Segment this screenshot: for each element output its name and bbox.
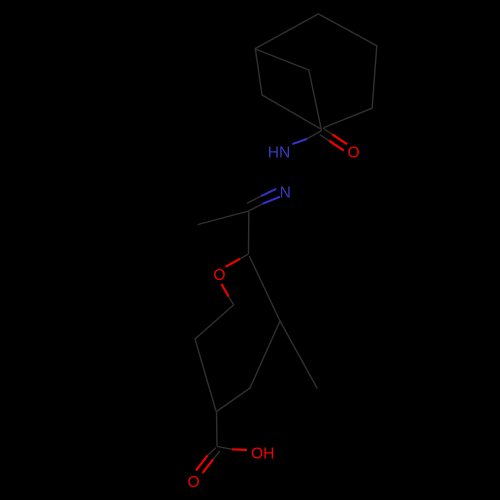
acid C=O red half 2 [203,460,214,474]
C=O double bond red half 1 [332,134,347,144]
imine C to furan C2 bond [248,213,250,253]
C=N inner line carbon half [248,196,262,203]
furan O-C2 bond red half [226,259,241,267]
C=O double bond carbon stub 2 [320,135,329,141]
methyl bond on imine carbon [198,211,249,225]
acid C=O carbon stub 1 [208,448,216,456]
bond furan C2 down-right [250,257,281,322]
furan O-C5 bond red half [222,284,229,297]
furan O-C5 bond carbon half [229,297,234,305]
svg-text:O: O [188,474,200,491]
cage bond C2-C3 [255,49,262,96]
bond furan C5 down-left [195,305,234,339]
C=O double bond carbon stub 1 [323,128,332,134]
ring bond down-right [280,321,317,388]
core hydrazone carbon half-bonds, slightly brighter [248,131,322,253]
ring bond right to acid vertex [217,388,251,412]
svg-text:O: O [213,267,225,284]
acid C-OH carbon half [218,447,233,450]
acid C=O carbon stub 2 [213,452,220,460]
acid C=O red half 1 [196,456,208,471]
C=N inner line blue half [261,189,276,196]
carbonyl to cage bond [309,70,322,131]
furan O-C2 bond carbon half [240,254,249,259]
acid C-OH red half [232,448,247,451]
svg-text:OH: OH [251,445,274,462]
cage bond C9-C2 [255,49,308,70]
cage bond C7-C1 [324,108,372,127]
svg-text:HN: HN [268,144,291,161]
svg-text:O: O [348,145,360,162]
ring bond left to acid vertex [195,339,216,411]
C=N main line carbon half [249,204,263,211]
cage bond C8-C7 [372,46,377,108]
bond ring vertex to acid carbon [216,412,219,446]
cage bond apex-C8 [318,14,376,46]
amide N-C bond carbon half [307,131,322,140]
ring bond down-left [250,321,280,388]
cage bond C2-apex [255,14,318,49]
cage bond C3-C1 [262,95,320,129]
C=N main line blue half [263,197,280,204]
amide N-C bond blue half [293,139,307,144]
C=O double bond red half 2 [329,141,344,151]
svg-text:N: N [280,184,291,201]
